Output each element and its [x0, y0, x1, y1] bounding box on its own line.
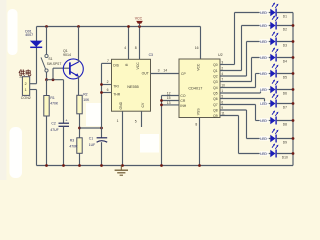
- svg-text:D1: D1: [283, 15, 287, 19]
- svg-text:5: 5: [135, 119, 137, 123]
- wire C2 top: [63, 80, 65, 124]
- svg-text:1: 1: [25, 88, 27, 92]
- node junction D3 / right rail: [292, 40, 295, 43]
- wire CD4017 pin16 drop: [200, 27, 202, 60]
- svg-text:2: 2: [107, 80, 109, 84]
- node junction pin4 / rail: [127, 25, 130, 28]
- wire emitter down: [78, 76, 80, 95]
- wire base riser: [52, 68, 54, 80]
- svg-text:13: 13: [167, 101, 171, 105]
- svg-text:VSS: VSS: [197, 108, 201, 116]
- wire Q9 feeder vertical: [238, 116, 240, 154]
- svg-text:LED: LED: [260, 152, 267, 156]
- IC U2 CD4017 decade counter body: [179, 59, 220, 118]
- svg-text:LED: LED: [260, 119, 267, 123]
- svg-text:1UF: 1UF: [89, 143, 95, 147]
- capacitor C2 47UF: [59, 123, 70, 126]
- node junction D5 / right rail: [292, 72, 295, 75]
- label LED badge D8: [260, 118, 269, 123]
- svg-text:THR: THR: [113, 93, 121, 97]
- LED D5: [270, 63, 278, 77]
- label LED badge D1: [260, 10, 269, 15]
- svg-text:3: 3: [158, 69, 160, 73]
- svg-text:LED: LED: [260, 137, 267, 141]
- wire right LED common rail: [292, 13, 294, 166]
- svg-text:LED: LED: [260, 11, 267, 15]
- wire node to 555 input column: [80, 127, 102, 129]
- node junction collector / top rail: [77, 25, 80, 28]
- label LED badge D9: [260, 136, 269, 141]
- wire Q2 stub: [220, 75, 247, 77]
- node junction on 555 column: [100, 127, 103, 130]
- wire Q7 stub: [220, 104, 256, 106]
- wire 555 pin8 to rail: [139, 27, 141, 60]
- wire Q8 stub: [220, 109, 247, 111]
- node junction D2 / right rail: [292, 24, 295, 27]
- node junction pin8 / rail: [138, 25, 141, 28]
- wire pin6 stub: [102, 92, 112, 94]
- wire Q4 feeder vertical: [255, 74, 257, 88]
- wire Q0 stub: [220, 64, 235, 66]
- node junction R2/R3: [78, 127, 81, 130]
- wire Q6 row to LED D7: [265, 103, 271, 105]
- svg-text:D8: D8: [283, 123, 287, 127]
- resistor R2 10K: [77, 95, 82, 114]
- white patch near C1: [86, 103, 101, 126]
- svg-text:CON2: CON2: [21, 96, 31, 100]
- wire Q6 feeder vertical: [264, 99, 266, 104]
- svg-text:CR: CR: [180, 99, 185, 103]
- svg-text:S1: S1: [48, 57, 52, 61]
- wire OUT pin3 to CD4017 CP pin14: [151, 73, 180, 75]
- svg-text:Q4: Q4: [213, 86, 218, 90]
- svg-text:VCC: VCC: [136, 62, 140, 70]
- wire reset/inhibit column to ground: [161, 96, 163, 166]
- node junction pin13 column: [160, 104, 163, 107]
- svg-text:INH: INH: [180, 104, 186, 108]
- LED D10: [270, 143, 278, 157]
- wire LED D1 cathode to rail: [277, 12, 293, 14]
- svg-text:D3: D3: [283, 44, 287, 48]
- node junction C2 / ground rail: [62, 164, 65, 167]
- svg-text:CV: CV: [141, 102, 145, 107]
- node A junction: [45, 78, 48, 81]
- node junction D7 / right rail: [292, 102, 295, 105]
- ground: [115, 166, 128, 176]
- svg-text:8: 8: [195, 123, 197, 127]
- svg-text:4007: 4007: [25, 33, 33, 37]
- wire R1 top: [46, 80, 48, 96]
- wire Q4 stub: [220, 87, 256, 89]
- wire Q3 feeder vertical: [251, 58, 253, 82]
- svg-text:C2: C2: [51, 121, 55, 125]
- wire pin15 stub: [162, 100, 180, 102]
- svg-text:C3: C3: [149, 53, 153, 57]
- node junction pin2: [100, 83, 103, 86]
- wire Q3 stub: [220, 81, 252, 83]
- wire LED D4 cathode to rail: [277, 57, 293, 59]
- wire Q9 row to LED D10: [239, 153, 271, 155]
- svg-text:470R: 470R: [69, 145, 78, 149]
- LED D2: [270, 15, 278, 29]
- wire switch drop from rail: [46, 27, 48, 55]
- svg-text:D9: D9: [283, 141, 287, 145]
- svg-text:VCC: VCC: [197, 63, 201, 71]
- wire Q0 row to LED D1: [235, 12, 271, 14]
- label LED badge D4: [260, 55, 269, 60]
- label LED badge D7: [260, 101, 269, 106]
- node junction R3 / ground rail: [78, 164, 81, 167]
- LED D6: [270, 79, 278, 93]
- svg-text:15: 15: [167, 96, 171, 100]
- LED D7: [270, 93, 278, 107]
- node junction pin15 column: [160, 99, 163, 102]
- capacitor C1 1UF: [97, 138, 108, 142]
- svg-text:CO: CO: [180, 94, 185, 98]
- svg-text:CP: CP: [181, 72, 186, 76]
- svg-text:8: 8: [135, 46, 137, 50]
- svg-text:DIS: DIS: [113, 64, 119, 68]
- label LED badge D10: [260, 151, 269, 156]
- svg-text:D5: D5: [283, 76, 287, 80]
- svg-text:14: 14: [163, 69, 167, 73]
- wire LED D6 cathode to rail: [277, 89, 293, 91]
- LED D3: [270, 31, 278, 45]
- svg-text:1: 1: [117, 119, 119, 123]
- node junction D4 / right rail: [292, 56, 295, 59]
- wire Q4 row to LED D5: [256, 73, 271, 75]
- svg-text:Q5: Q5: [213, 91, 218, 95]
- svg-text:LED: LED: [260, 40, 267, 44]
- node junction D6 / right rail: [292, 88, 295, 91]
- wire Q2 feeder vertical: [246, 42, 248, 77]
- svg-text:6: 6: [107, 88, 109, 92]
- white glare stripe lower-left: [10, 127, 23, 178]
- svg-text:12: 12: [167, 91, 171, 95]
- svg-text:D2: D2: [283, 28, 287, 32]
- wire R2 bottom to node: [79, 114, 81, 138]
- power VCC symbol: [136, 21, 143, 27]
- wire LED D9 cathode to rail: [277, 138, 293, 140]
- svg-text:CD4017: CD4017: [188, 86, 202, 90]
- label LED badge D6: [260, 87, 269, 92]
- svg-text:Q3: Q3: [213, 80, 218, 84]
- LED D4: [270, 47, 278, 61]
- resistor R3 470R: [77, 138, 82, 154]
- svg-text:J1: J1: [19, 75, 23, 79]
- wire LED D5 cathode to rail: [277, 73, 293, 75]
- svg-text:LED: LED: [260, 72, 267, 76]
- LED D8: [270, 110, 278, 124]
- wire Q3 row to LED D4: [252, 57, 271, 59]
- wire connector pin1 stub: [30, 89, 37, 91]
- wire pin2 stub: [102, 84, 112, 86]
- wire R3 bottom: [79, 153, 81, 165]
- resistor R1 470K: [44, 96, 49, 117]
- wire Q1 row to LED D2: [242, 25, 271, 27]
- wire bottom ground rail: [37, 165, 294, 167]
- svg-text:OUT: OUT: [142, 71, 149, 75]
- wire pin13 stub: [162, 104, 180, 106]
- node junction GND pin / rail: [121, 164, 124, 167]
- wire LED D10 cathode to rail: [277, 153, 293, 155]
- wire Q7 feeder vertical: [255, 105, 257, 121]
- node junction D8 / right rail: [292, 119, 295, 122]
- svg-text:D4: D4: [283, 60, 287, 64]
- wire Q7 row to LED D8: [256, 120, 271, 122]
- LED D9: [270, 128, 278, 142]
- wire Q0 feeder vertical: [234, 13, 236, 65]
- svg-text:D7: D7: [283, 106, 287, 110]
- svg-text:Q0: Q0: [213, 63, 218, 67]
- wire LED D2 cathode to rail: [277, 25, 293, 27]
- wire Q5 feeder vertical: [260, 90, 262, 94]
- wire CD4017 VSS pin8 down: [199, 118, 201, 166]
- IC U1 NE555 timer body: [112, 59, 151, 111]
- wire Q6 stub: [220, 98, 265, 100]
- svg-text:D6: D6: [283, 92, 287, 96]
- wire node A horizontal: [47, 79, 64, 81]
- svg-text:LED: LED: [260, 56, 267, 60]
- wire 555 input column vertical: [101, 63, 103, 137]
- svg-text:NE555: NE555: [127, 85, 139, 89]
- svg-text:470K: 470K: [50, 102, 59, 106]
- wire left vertical lower (to ground rail): [36, 90, 38, 166]
- svg-text:2: 2: [25, 82, 27, 86]
- wire LED D7 cathode to rail: [277, 103, 293, 105]
- wire top VCC rail: [37, 26, 201, 28]
- wire base horizontal to Q1: [53, 67, 70, 69]
- svg-text:4: 4: [124, 46, 126, 50]
- svg-text:GND: GND: [119, 101, 123, 109]
- diode D01 4007: [30, 41, 43, 48]
- wire R1 bottom: [46, 116, 48, 166]
- wire left vertical upper (diode branch): [36, 27, 38, 84]
- LED D1: [270, 2, 278, 16]
- wire C1 bottom: [101, 142, 103, 165]
- svg-text:Q8: Q8: [213, 108, 218, 112]
- label LED badge D5: [260, 71, 269, 76]
- node junction base riser: [52, 78, 55, 81]
- svg-text:LED: LED: [260, 88, 267, 92]
- wire Q5 row to LED D6: [261, 89, 271, 91]
- svg-text:9014: 9014: [63, 53, 71, 57]
- svg-text:SW-SPST: SW-SPST: [47, 62, 62, 66]
- node junction R1 / ground rail: [45, 164, 48, 167]
- wire Q1 stub: [220, 70, 242, 72]
- svg-text:U2: U2: [218, 53, 223, 57]
- wire collector up: [78, 27, 80, 62]
- svg-text:Q2: Q2: [213, 74, 218, 78]
- wire Q9 stub: [220, 115, 239, 117]
- svg-text:R1: R1: [50, 96, 54, 100]
- node junction top rail / switch: [45, 25, 48, 28]
- wire switch to node A: [46, 72, 48, 80]
- wire Q5 stub: [220, 92, 261, 94]
- switch S1 SW-SPST: [41, 54, 48, 72]
- wire pin12 stub: [162, 95, 180, 97]
- svg-text:R3: R3: [70, 138, 74, 142]
- white patch below NE555: [140, 134, 159, 153]
- svg-text:LED: LED: [260, 24, 267, 28]
- transistor Q1 9014: [63, 59, 83, 79]
- svg-text:47UF: 47UF: [50, 128, 58, 132]
- node junction VSS / rail: [198, 164, 201, 167]
- svg-text:D10: D10: [282, 156, 288, 160]
- node junction pin6: [100, 91, 103, 94]
- wire Q8 row to LED D9: [247, 138, 271, 140]
- svg-text:16: 16: [195, 46, 199, 50]
- svg-text:Q1: Q1: [213, 69, 218, 73]
- label LED badge D2: [260, 23, 269, 28]
- node junction column / ground rail: [160, 164, 163, 167]
- svg-text:VCC: VCC: [135, 17, 143, 21]
- node junction D10 / right rail: [292, 152, 295, 155]
- svg-text:Q6: Q6: [213, 97, 218, 101]
- wire LED D3 cathode to rail: [277, 41, 293, 43]
- label LED badge D3: [260, 39, 269, 44]
- node junction C1 / ground rail: [100, 164, 103, 167]
- wire 555 CV pin5 dangling: [141, 111, 143, 127]
- svg-text:TRI: TRI: [113, 85, 119, 89]
- svg-text:Q9: Q9: [213, 114, 218, 118]
- svg-text:LED: LED: [260, 102, 267, 106]
- wire 555 GND pin1 down: [122, 111, 124, 165]
- wire LED D8 cathode to rail: [277, 120, 293, 122]
- connector J1 CON2 (供电): [22, 77, 29, 96]
- svg-text:7: 7: [107, 59, 109, 63]
- wire Q2 row to LED D3: [247, 41, 271, 43]
- svg-text:10K: 10K: [83, 98, 90, 102]
- white glare stripe upper-left: [8, 9, 18, 55]
- svg-text:R2: R2: [83, 93, 87, 97]
- wire 555 pin4 to rail: [128, 27, 130, 60]
- wire connector pin2 stub: [30, 83, 37, 85]
- svg-text:Q7: Q7: [213, 103, 218, 107]
- node junction D9 / right rail: [292, 137, 295, 140]
- wire C2 bottom: [63, 126, 65, 165]
- wire Q1 feeder vertical: [241, 26, 243, 71]
- wire pin7 stub: [102, 62, 112, 64]
- svg-text:C1: C1: [89, 136, 93, 140]
- left edge light band: [0, 0, 7, 180]
- wire Q8 feeder vertical: [246, 110, 248, 139]
